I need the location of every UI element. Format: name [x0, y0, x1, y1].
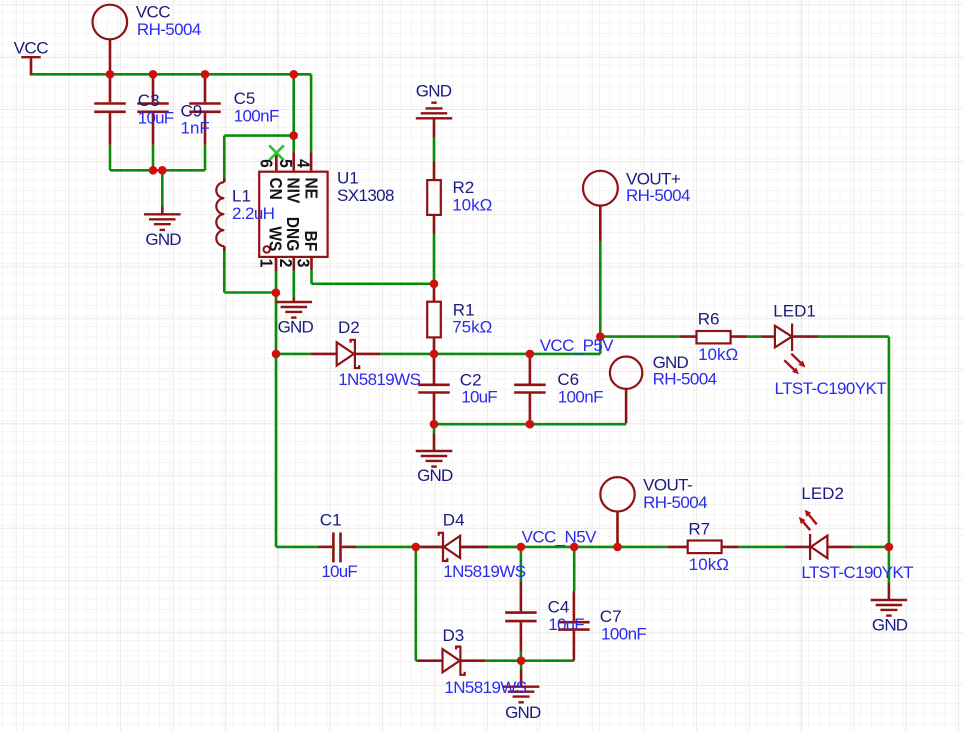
svg-text:2.2uH: 2.2uH: [232, 204, 274, 223]
svg-text:GND: GND: [505, 703, 541, 722]
svg-text:D3: D3: [443, 626, 465, 645]
svg-text:R7: R7: [688, 520, 710, 539]
svg-text:10kΩ: 10kΩ: [689, 555, 729, 574]
svg-text:C7: C7: [600, 607, 622, 626]
svg-text:1nF: 1nF: [181, 119, 210, 138]
svg-text:10uF: 10uF: [461, 388, 497, 407]
svg-text:RH-5004: RH-5004: [137, 20, 201, 39]
svg-text:C1: C1: [320, 511, 342, 530]
svg-text:1: 1: [256, 259, 276, 268]
svg-text:LTST-C190YKT: LTST-C190YKT: [775, 379, 887, 398]
svg-text:100nF: 100nF: [234, 106, 279, 125]
svg-text:VOUT-: VOUT-: [643, 476, 692, 495]
svg-text:GND: GND: [872, 615, 908, 634]
svg-text:D2: D2: [338, 318, 360, 337]
svg-text:4: 4: [293, 159, 313, 168]
svg-text:GND: GND: [417, 466, 453, 485]
svg-text:RH-5004: RH-5004: [643, 493, 707, 512]
svg-text:VCC: VCC: [136, 2, 171, 21]
svg-text:3: 3: [293, 259, 313, 268]
svg-text:C9: C9: [181, 101, 203, 120]
svg-text:100nF: 100nF: [558, 387, 603, 406]
svg-text:C5: C5: [234, 89, 256, 108]
svg-text:GND: GND: [278, 317, 314, 336]
svg-text:RH-5004: RH-5004: [653, 370, 717, 389]
svg-text:75kΩ: 75kΩ: [452, 318, 492, 337]
svg-text:6: 6: [256, 159, 276, 168]
svg-text:VCC_N5V: VCC_N5V: [522, 527, 597, 546]
svg-text:GND: GND: [145, 230, 181, 249]
svg-text:LED2: LED2: [801, 484, 844, 503]
svg-text:100nF: 100nF: [601, 625, 646, 644]
svg-text:VCC: VCC: [14, 39, 49, 58]
svg-text:R1: R1: [453, 300, 475, 319]
svg-text:LTST-C190YKT: LTST-C190YKT: [801, 563, 913, 582]
svg-text:R6: R6: [698, 310, 720, 329]
svg-text:BF: BF: [301, 231, 321, 252]
svg-text:R2: R2: [453, 178, 475, 197]
svg-text:LED1: LED1: [773, 302, 816, 321]
svg-text:GND: GND: [416, 82, 452, 101]
svg-text:10uF: 10uF: [138, 108, 174, 127]
svg-text:SX1308: SX1308: [337, 186, 394, 205]
svg-text:10uF: 10uF: [548, 615, 584, 634]
svg-text:D4: D4: [443, 511, 465, 530]
svg-text:C4: C4: [548, 598, 570, 617]
svg-text:VCC_P5V: VCC_P5V: [540, 336, 615, 355]
svg-text:U1: U1: [337, 169, 359, 188]
svg-text:1N5819WS: 1N5819WS: [443, 562, 525, 581]
svg-text:1N5819WS: 1N5819WS: [338, 370, 420, 389]
svg-text:10uF: 10uF: [321, 562, 357, 581]
svg-text:10kΩ: 10kΩ: [698, 345, 738, 364]
svg-text:10kΩ: 10kΩ: [452, 196, 492, 215]
svg-text:C3: C3: [138, 91, 160, 110]
svg-text:NE: NE: [301, 178, 321, 200]
svg-text:RH-5004: RH-5004: [626, 186, 690, 205]
svg-text:L1: L1: [232, 187, 251, 206]
svg-text:1N5819WS: 1N5819WS: [444, 678, 526, 697]
